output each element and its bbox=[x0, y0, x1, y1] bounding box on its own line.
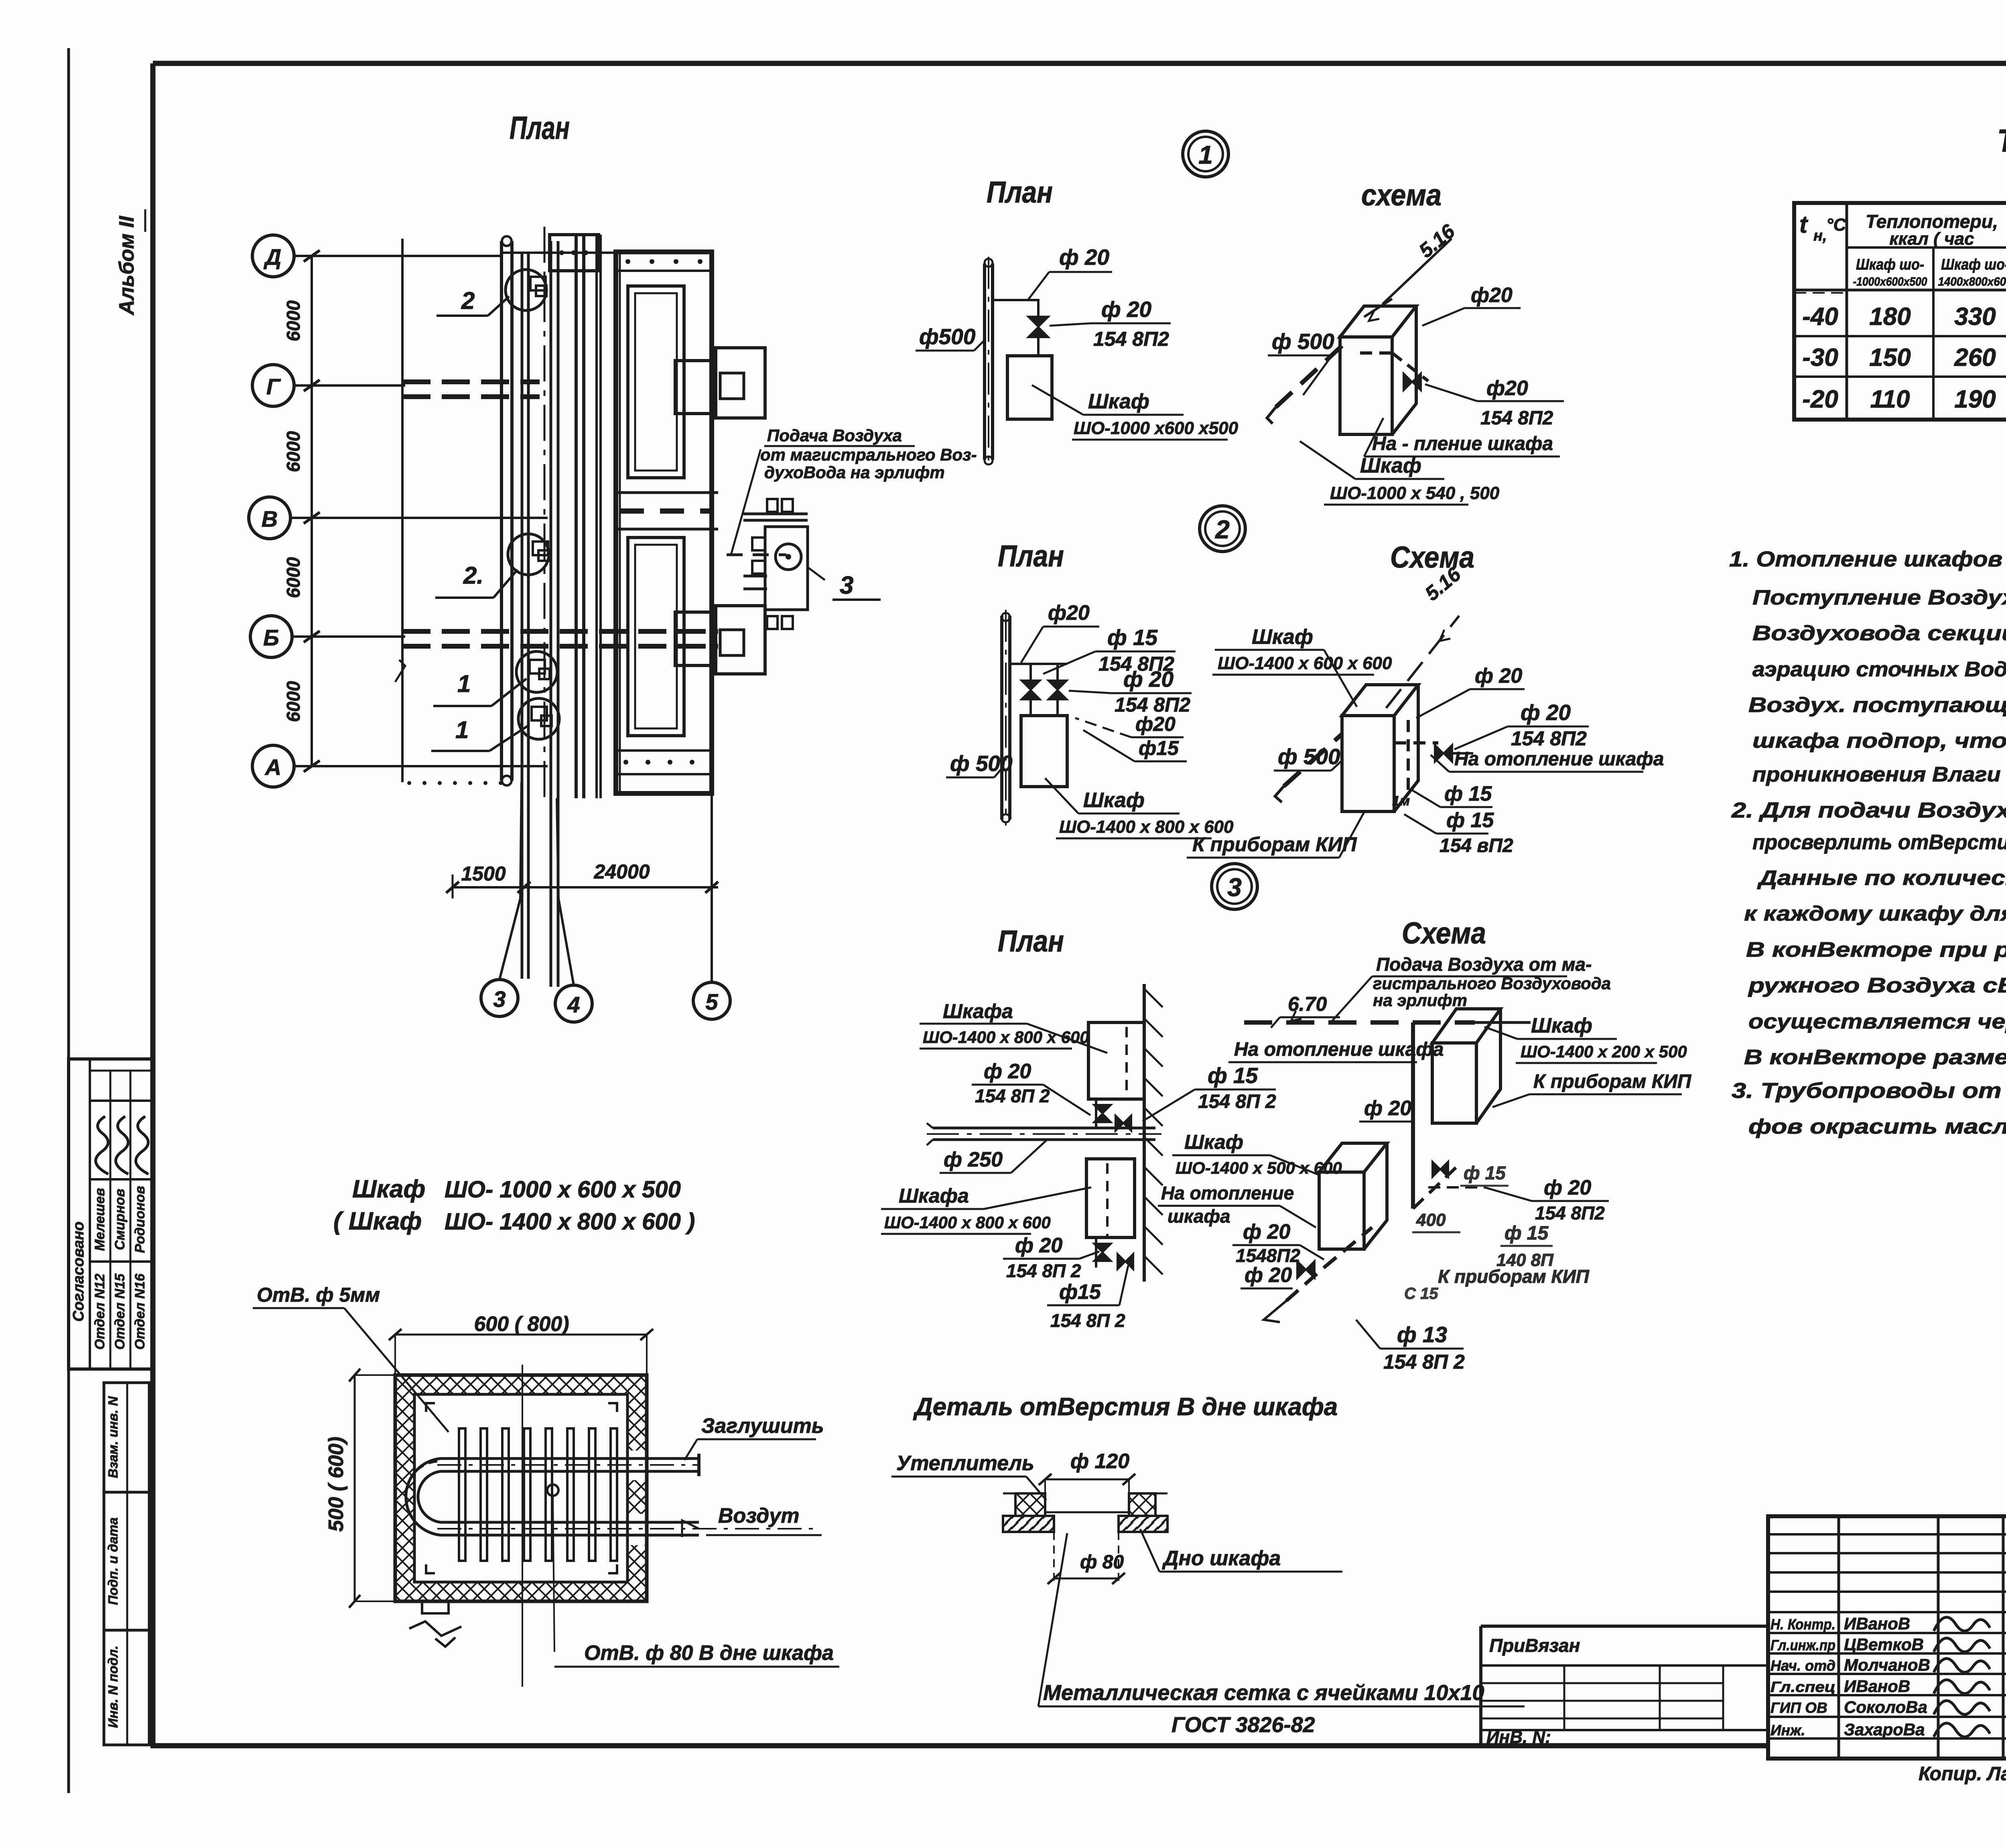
svg-text:ружного Воздуха сВедены В: ружного Воздуха сВедены В таблицу. Выход… bbox=[1747, 974, 2006, 997]
svg-text:1: 1 bbox=[455, 716, 469, 743]
node2 schema riser 5.16 bbox=[1386, 616, 1459, 708]
svg-text:ф 20: ф 20 bbox=[1101, 297, 1152, 322]
svg-text:154 8П 2: 154 8П 2 bbox=[1050, 1310, 1125, 1331]
svg-text:3. Трубопроводы от магистрал: 3. Трубопроводы от магистрального Воздух… bbox=[1732, 1079, 2006, 1103]
svg-text:ф 20: ф 20 bbox=[1059, 245, 1110, 270]
svg-text:ф20: ф20 bbox=[1471, 284, 1513, 307]
svg-text:ф 20: ф 20 bbox=[1243, 1220, 1290, 1243]
svg-text:Схема: Схема bbox=[1390, 540, 1474, 574]
svg-text:Воздуховода секции аэротен: Воздуховода секции аэротенка, подающего … bbox=[1752, 622, 2006, 645]
svg-text:ф 15: ф 15 bbox=[1107, 625, 1158, 650]
svg-text:-1000х600х500: -1000х600х500 bbox=[1853, 275, 1927, 288]
svg-text:24000: 24000 bbox=[593, 860, 650, 883]
svg-text:План: План bbox=[510, 110, 570, 146]
svg-text:180: 180 bbox=[1869, 303, 1911, 331]
svg-text:1: 1 bbox=[1198, 140, 1213, 169]
svg-text:ф 20: ф 20 bbox=[984, 1060, 1031, 1083]
dim 500 line bbox=[354, 1375, 356, 1601]
grid line Г duct dashes bbox=[402, 379, 540, 384]
grid line А bbox=[294, 765, 548, 767]
svg-text:А: А bbox=[264, 755, 281, 780]
svg-text:ф15: ф15 bbox=[1059, 1280, 1101, 1304]
node1 schema branch f20 bbox=[1464, 307, 1521, 309]
plan wall top edge line bbox=[501, 252, 616, 254]
svg-text:6.70: 6.70 bbox=[1288, 993, 1327, 1015]
svg-text:ф 250: ф 250 bbox=[944, 1148, 1003, 1171]
node2 cabinet box bbox=[1021, 716, 1067, 787]
svg-text:190: 190 bbox=[1954, 385, 1996, 413]
svg-text:ЗахароВа: ЗахароВа bbox=[1844, 1720, 1925, 1739]
svg-text:154 8П2: 154 8П2 bbox=[1511, 727, 1587, 750]
svg-text:5: 5 bbox=[705, 989, 718, 1014]
svg-text:ккал ( час: ккал ( час bbox=[1889, 229, 1974, 249]
table outer border bbox=[1794, 203, 2006, 420]
svg-text:Утеплитель: Утеплитель bbox=[896, 1452, 1034, 1475]
svg-text:Заглушить: Заглушить bbox=[701, 1414, 824, 1438]
cabinet corner marks bbox=[426, 1403, 435, 1412]
grid line Д bbox=[294, 255, 501, 257]
svg-text:ОтВ. ф 5мм: ОтВ. ф 5мм bbox=[257, 1284, 380, 1306]
airlift assembly bbox=[767, 499, 778, 512]
airlift feed dashed line bbox=[727, 554, 786, 556]
svg-text:ф20: ф20 bbox=[1048, 601, 1090, 625]
node3 plan upper cabinet bbox=[1088, 1022, 1144, 1099]
svg-text:Отдел N12: Отдел N12 bbox=[92, 1274, 108, 1350]
plan wall lines 1487 1497 bbox=[595, 235, 598, 798]
svg-text:К приборам КИП: К приборам КИП bbox=[1438, 1266, 1590, 1287]
node2 schema duct f500 diagonal bbox=[1284, 734, 1342, 786]
hole circle in cabinet floor bbox=[547, 1485, 558, 1496]
svg-text:2. Для подачи Воздуха В шкаф: 2. Для подачи Воздуха В шкаф, В конВекто… bbox=[1731, 798, 2006, 822]
svg-text:ШО-1000 х 540 , 500: ШО-1000 х 540 , 500 bbox=[1330, 483, 1500, 503]
node3 plan valves lower bbox=[1095, 1237, 1097, 1268]
vertical dimension line axes bbox=[311, 256, 313, 766]
svg-text:шкафа: шкафа bbox=[1167, 1206, 1230, 1227]
svg-text:500 ( 600): 500 ( 600) bbox=[325, 1436, 348, 1532]
svg-text:°С: °С bbox=[1826, 215, 1847, 235]
grid line Б bbox=[292, 635, 405, 638]
table subheader row line bbox=[1794, 289, 2006, 292]
plan tank block outer wall bbox=[616, 252, 712, 793]
svg-text:Родионов: Родионов bbox=[132, 1186, 148, 1253]
svg-text:На отопление шкафа: На отопление шкафа bbox=[1234, 1039, 1444, 1060]
svg-text:Согласовано: Согласовано bbox=[70, 1221, 87, 1322]
svg-text:фов окрасить масляной крас: фов окрасить масляной краской за 2 раза. bbox=[1748, 1115, 2006, 1138]
titleblock names rows empty top bbox=[1768, 1533, 2006, 1536]
node3 plan wall with hatching bbox=[1143, 984, 1146, 1282]
grid circle 4 bottom bbox=[555, 985, 592, 1022]
node1 schema pipe into box dashed bbox=[1360, 351, 1392, 355]
svg-text:В: В bbox=[262, 506, 278, 531]
svg-text:На отопление: На отопление bbox=[1161, 1183, 1294, 1203]
svg-text:Инж.: Инж. bbox=[1770, 1722, 1805, 1738]
hole top edge lines bbox=[1045, 1511, 1129, 1513]
svg-text:t: t bbox=[1799, 211, 1809, 238]
svg-text:2.: 2. bbox=[463, 562, 483, 589]
svg-text:Подп. и дата: Подп. и дата bbox=[106, 1517, 120, 1605]
svg-text:ф15: ф15 bbox=[1139, 737, 1179, 759]
node2 branch pipes bbox=[1010, 663, 1067, 665]
detail balloon circle low2 (1) bbox=[518, 698, 559, 739]
svg-text:ф 20: ф 20 bbox=[1245, 1264, 1292, 1287]
svg-text:154 8П2: 154 8П2 bbox=[1535, 1203, 1605, 1223]
table header group lines bbox=[1846, 203, 1848, 420]
svg-text:154 8П 2: 154 8П 2 bbox=[1006, 1260, 1081, 1281]
svg-text:ф 500: ф 500 bbox=[950, 751, 1013, 776]
svg-text:1м: 1м bbox=[1392, 793, 1410, 809]
svg-text:проникновения Влаги Внутрь.: проникновения Влаги Внутрь. bbox=[1752, 763, 2006, 786]
svg-text:Д: Д bbox=[264, 244, 281, 270]
svg-text:Поступление Воздуха осущест: Поступление Воздуха осуществляется от ма… bbox=[1752, 586, 2006, 609]
svg-text:-20: -20 bbox=[1802, 385, 1838, 413]
svg-text:В конВекторе при разных р: В конВекторе при разных расчетных темпер… bbox=[1746, 938, 2006, 962]
svg-text:260: 260 bbox=[1954, 344, 1996, 371]
titleblock names table columns bbox=[1837, 1516, 1840, 1759]
node3 schema main air line bbox=[1244, 1020, 1475, 1025]
convector upper pipe bbox=[441, 1457, 699, 1460]
svg-text:Б: Б bbox=[263, 625, 279, 650]
svg-text:План: План bbox=[998, 924, 1064, 958]
grid circle 5 bottom bbox=[693, 982, 730, 1019]
svg-text:6000: 6000 bbox=[283, 300, 304, 341]
plan right wall protrusion lower bbox=[675, 612, 712, 665]
svg-text:Г: Г bbox=[266, 374, 281, 399]
detail balloon circle mid (2) bbox=[508, 534, 549, 575]
plan tank 1 inner walls bbox=[628, 286, 684, 478]
node 3 balloon bbox=[1212, 864, 1257, 909]
svg-text:схема: схема bbox=[1361, 178, 1442, 212]
convector U-bend bbox=[406, 1459, 441, 1535]
svg-text:ф 15: ф 15 bbox=[1208, 1063, 1259, 1088]
svg-text:ф 500: ф 500 bbox=[1272, 329, 1334, 354]
svg-text:Гл.спец: Гл.спец bbox=[1770, 1679, 1835, 1695]
svg-text:Подача Воздуха: Подача Воздуха bbox=[767, 426, 902, 445]
table sub column lines bbox=[1932, 247, 1935, 420]
svg-text:ф 20: ф 20 bbox=[1364, 1097, 1411, 1120]
cabinet box outer wall bbox=[395, 1375, 647, 1601]
stamp cell Инв. N подл. bbox=[104, 1630, 149, 1745]
cabinet box inner wall bbox=[414, 1394, 627, 1582]
svg-text:Шкаф: Шкаф bbox=[1083, 789, 1145, 812]
convector lower pipe bbox=[441, 1521, 699, 1524]
svg-text:ф20: ф20 bbox=[1135, 713, 1176, 735]
plan wall lines 1373 1391 bbox=[550, 241, 552, 987]
svg-text:ГОСТ 3826-82: ГОСТ 3826-82 bbox=[1172, 1713, 1315, 1737]
svg-text:Копир. ЛаВрухина: Копир. ЛаВрухина bbox=[1919, 1763, 2006, 1785]
svg-text:Подача Воздуха от ма-: Подача Воздуха от ма- bbox=[1376, 954, 1592, 975]
svg-text:Инв. N подл.: Инв. N подл. bbox=[106, 1645, 120, 1728]
approval stamp dividers bbox=[89, 1059, 91, 1369]
node2 schema isometric box bbox=[1342, 685, 1418, 811]
svg-text:Отдел N15: Отдел N15 bbox=[112, 1273, 128, 1350]
section axis vertical line bbox=[522, 1365, 523, 1687]
svg-text:Гл.инж.пр: Гл.инж.пр bbox=[1770, 1637, 1835, 1653]
insulation block right crosshatch bbox=[1129, 1493, 1155, 1516]
svg-text:600 ( 800): 600 ( 800) bbox=[474, 1312, 569, 1336]
svg-text:ИВаноВ: ИВаноВ bbox=[1844, 1614, 1910, 1633]
svg-text:МолчаноВ: МолчаноВ bbox=[1844, 1655, 1930, 1674]
svg-text:ф 13: ф 13 bbox=[1397, 1322, 1447, 1347]
grid axis circle Г bbox=[252, 365, 294, 406]
svg-text:В конВекторе разместить ра: В конВекторе разместить раВномерно по дл… bbox=[1744, 1046, 2006, 1069]
grid axis circle В bbox=[249, 497, 290, 539]
grid axis circle А bbox=[252, 745, 294, 787]
floor plate right diagonal hatch bbox=[1119, 1516, 1167, 1532]
svg-text:ГИП ОВ: ГИП ОВ bbox=[1770, 1700, 1827, 1716]
svg-text:6000: 6000 bbox=[283, 681, 304, 722]
svg-text:Шкаф: Шкаф bbox=[352, 1175, 425, 1203]
svg-text:ф 15: ф 15 bbox=[1446, 809, 1494, 832]
node3 plan lower cabinet bbox=[1086, 1159, 1135, 1237]
svg-text:Шкаф: Шкаф bbox=[1184, 1131, 1243, 1153]
svg-text:С 15: С 15 bbox=[1404, 1285, 1438, 1302]
svg-text:ф 80: ф 80 bbox=[1080, 1552, 1124, 1573]
svg-text:ф 20: ф 20 bbox=[1123, 667, 1174, 692]
node2 schema internal pipe dashed bbox=[1407, 720, 1410, 796]
svg-text:ф 20: ф 20 bbox=[1475, 664, 1522, 688]
dim 600 line bbox=[395, 1334, 647, 1336]
svg-text:Смирнов: Смирнов bbox=[112, 1189, 128, 1250]
plan right box upper bbox=[716, 348, 765, 418]
svg-text:ф 500: ф 500 bbox=[1278, 744, 1340, 769]
svg-text:ШО- 1400 х 800 х 600 ): ШО- 1400 х 800 х 600 ) bbox=[445, 1209, 695, 1235]
node3 schema riser vertical bbox=[1411, 1022, 1415, 1209]
leader line to airlift bbox=[731, 449, 761, 555]
svg-text:На отопление шкафа: На отопление шкафа bbox=[1454, 749, 1664, 770]
svg-text:1: 1 bbox=[457, 670, 471, 697]
svg-text:154 8П 2: 154 8П 2 bbox=[975, 1085, 1050, 1106]
svg-text:1500: 1500 bbox=[461, 862, 506, 885]
svg-text:ИнВ. N:: ИнВ. N: bbox=[1486, 1727, 1551, 1747]
grid axis circle Д bbox=[252, 235, 294, 277]
approval stamp table box bbox=[69, 1059, 152, 1369]
svg-text:осуществляется через патр: осуществляется через патрубок В дне шкаф… bbox=[1748, 1010, 2006, 1033]
drawing frame border bbox=[153, 61, 2006, 66]
svg-text:ПриВязан: ПриВязан bbox=[1489, 1635, 1580, 1656]
node3 schema smudge pipes right bbox=[1413, 1163, 1460, 1209]
svg-text:Данные по количеству Воздуха: Данные по количеству Воздуха, который сл… bbox=[1757, 866, 2006, 890]
svg-text:2: 2 bbox=[461, 287, 475, 314]
node2 duct f500 vertical bbox=[1000, 616, 1003, 820]
node1 schema riser 5.16 bbox=[1383, 239, 1452, 304]
grid axis circle Б bbox=[250, 616, 292, 657]
svg-text:План: План bbox=[987, 175, 1053, 209]
plan bottom strip with dots bbox=[616, 749, 712, 752]
svg-text:шкафа подпор, что обеспечив: шкафа подпор, что обеспечивает защиту ар… bbox=[1752, 729, 2006, 753]
stamp cell Взам. инв. N bbox=[104, 1383, 149, 1492]
svg-text:План: План bbox=[998, 539, 1064, 573]
grid line Б duct dashes bbox=[402, 629, 718, 634]
node2 valve 2 bbox=[1048, 680, 1067, 700]
svg-text:4: 4 bbox=[567, 992, 580, 1017]
plan wall west double line bbox=[500, 241, 503, 781]
svg-text:ф500: ф500 bbox=[919, 324, 976, 349]
svg-text:Альбом II: Альбом II bbox=[115, 215, 138, 316]
grid circle 3 bottom bbox=[481, 980, 518, 1016]
grid line Г bbox=[294, 384, 405, 387]
svg-text:ф 20: ф 20 bbox=[1544, 1176, 1591, 1199]
svg-text:Шкафа: Шкафа bbox=[899, 1185, 969, 1207]
plan centre dash-dot line bbox=[544, 227, 546, 804]
svg-text:Взам. инв. N: Взам. инв. N bbox=[106, 1396, 120, 1478]
svg-text:Шкаф: Шкаф bbox=[1360, 454, 1421, 477]
plan tank 2 inner walls bbox=[628, 538, 684, 736]
titleblock names rows signed bbox=[1768, 1611, 2006, 1613]
svg-text:ф 15: ф 15 bbox=[1504, 1223, 1549, 1244]
svg-text:Шкаф: Шкаф bbox=[1252, 625, 1313, 649]
grid line В bbox=[290, 517, 548, 519]
svg-text:Н. Контр.: Н. Контр. bbox=[1770, 1616, 1835, 1633]
plan wall lines 1301 1317 bbox=[521, 252, 524, 979]
svg-text:150: 150 bbox=[1869, 344, 1911, 371]
svg-text:СоколоВа: СоколоВа bbox=[1844, 1698, 1927, 1716]
svg-text:Деталь отВерстия В дне шкафа: Деталь отВерстия В дне шкафа bbox=[913, 1393, 1338, 1421]
svg-text:ШО-1400 х 200 х 500: ШО-1400 х 200 х 500 bbox=[1521, 1042, 1687, 1061]
detail balloon circle top (2) bbox=[506, 270, 546, 310]
node 1 balloon bbox=[1183, 131, 1228, 177]
node3 schema upper cabinet isometric bbox=[1432, 1009, 1500, 1123]
plan middle channel bbox=[616, 491, 718, 494]
svg-text:154 вП2: 154 вП2 bbox=[1440, 835, 1513, 856]
svg-text:3: 3 bbox=[840, 572, 853, 599]
svg-text:Дно шкафа: Дно шкафа bbox=[1162, 1547, 1281, 1570]
svg-text:154 8П2: 154 8П2 bbox=[1480, 408, 1553, 429]
svg-text:2: 2 bbox=[1215, 515, 1230, 544]
node1 duct f500 vertical bbox=[983, 264, 986, 460]
svg-text:Мелешев: Мелешев bbox=[92, 1188, 108, 1251]
plan right wall protrusion upper bbox=[675, 361, 712, 414]
node3 plan valves upper bbox=[1095, 1099, 1097, 1128]
svg-text:н,: н, bbox=[1813, 227, 1827, 244]
svg-text:к каждому шкафу для его обог: к каждому шкафу для его обогрева, и коли… bbox=[1744, 902, 2006, 925]
svg-text:Схема: Схема bbox=[1402, 916, 1486, 950]
svg-text:Отдел N16: Отдел N16 bbox=[132, 1273, 148, 1350]
node3 schema valves diagonal bottom bbox=[1297, 1261, 1315, 1278]
svg-text:( Шкаф: ( Шкаф bbox=[333, 1207, 422, 1235]
node2 valve 1 bbox=[1021, 680, 1040, 700]
svg-text:Нач. отд: Нач. отд bbox=[1770, 1657, 1835, 1674]
svg-text:ф20: ф20 bbox=[1486, 377, 1528, 400]
svg-text:ОтВ. ф 80 В дне шкафа: ОтВ. ф 80 В дне шкафа bbox=[584, 1641, 834, 1665]
plan column axis line bbox=[401, 239, 404, 782]
svg-text:К приборам КИП: К приборам КИП bbox=[1533, 1071, 1692, 1092]
sheet left margin line bbox=[67, 48, 70, 1793]
svg-text:154 8П2: 154 8П2 bbox=[1093, 328, 1169, 350]
detail balloon circle low1 (1) bbox=[516, 651, 557, 692]
svg-text:ШО-1400 х 600 х 600: ШО-1400 х 600 х 600 bbox=[1218, 653, 1392, 673]
plan top box with dots bbox=[550, 235, 599, 271]
svg-text:Шкаф: Шкаф bbox=[1088, 390, 1149, 413]
svg-text:ЦВеткоВ: ЦВеткоВ bbox=[1844, 1635, 1924, 1654]
floor plate left diagonal hatch bbox=[1003, 1516, 1054, 1532]
node1 cabinet box bbox=[1007, 356, 1052, 419]
svg-text:ф 15: ф 15 bbox=[1444, 782, 1492, 805]
svg-text:Шкаф: Шкаф bbox=[1531, 1014, 1592, 1037]
svg-text:Шкаф шо-: Шкаф шо- bbox=[1856, 256, 1924, 273]
svg-text:-30: -30 bbox=[1802, 344, 1838, 371]
svg-text:3: 3 bbox=[1227, 873, 1242, 902]
cabinet door hinge marks bbox=[422, 1601, 449, 1613]
svg-text:400: 400 bbox=[1416, 1210, 1446, 1230]
svg-text:6000: 6000 bbox=[283, 431, 304, 472]
svg-text:154 8П 2: 154 8П 2 bbox=[1383, 1351, 1465, 1373]
svg-text:аэрацию сточных Вод.: аэрацию сточных Вод. bbox=[1752, 658, 2006, 681]
convector fins bbox=[459, 1428, 465, 1561]
plan right box lower bbox=[716, 606, 765, 674]
svg-text:Воздух. поступающий для отоп: Воздух. поступающий для отопления, созда… bbox=[1748, 694, 2006, 717]
svg-text:на эрлифт: на эрлифт bbox=[1373, 991, 1467, 1010]
svg-text:На - пление шкафа: На - пление шкафа bbox=[1372, 433, 1553, 454]
svg-text:ИВаноВ: ИВаноВ bbox=[1844, 1677, 1910, 1696]
insulation block left crosshatch bbox=[1015, 1493, 1045, 1516]
node 2 balloon bbox=[1200, 506, 1245, 552]
svg-text:1548П2: 1548П2 bbox=[1236, 1245, 1300, 1266]
table data row lines bbox=[1794, 335, 2006, 337]
titleblock left attachment table bbox=[1481, 1625, 1768, 1628]
node1 schema duct f500 diagonal dashed bbox=[1276, 340, 1348, 407]
plan wall band 1436 1455 bbox=[575, 235, 578, 798]
stamp cell Подп. и дата bbox=[104, 1492, 149, 1630]
node2 schema valve bbox=[1435, 744, 1452, 762]
svg-text:Металлическая сетка с ячейкам: Металлическая сетка с ячейками 10х10 bbox=[1043, 1681, 1484, 1705]
svg-text:ШО- 1000 х 600 х 500: ШО- 1000 х 600 х 500 bbox=[445, 1177, 681, 1203]
svg-text:духоВода на эрлифт: духоВода на эрлифт bbox=[764, 463, 945, 482]
plan bottom dots row under A bbox=[407, 781, 411, 785]
svg-text:154 8П 2: 154 8П 2 bbox=[1198, 1091, 1276, 1112]
pipe end cap Заглушить bbox=[697, 1454, 700, 1476]
svg-text:Таблица: Таблица bbox=[1997, 123, 2006, 158]
svg-text:ШО-1000 х600 х500: ШО-1000 х600 х500 bbox=[1074, 418, 1239, 438]
svg-text:1400х800х600: 1400х800х600 bbox=[1938, 275, 2006, 288]
bottom dimension line bbox=[453, 886, 718, 889]
svg-text:1. Отопление шкафов КИП- В: 1. Отопление шкафов КИП- Воздушное ( t В… bbox=[1729, 547, 2006, 571]
mesh leader line bbox=[1038, 1533, 1067, 1706]
plan tank top strip dots bbox=[616, 270, 712, 272]
table header row line bbox=[1847, 246, 2006, 249]
node1 valve bbox=[1028, 316, 1049, 337]
svg-text:Шкаф шо-: Шкаф шо- bbox=[1941, 256, 2006, 273]
node1 branch pipe f20 bbox=[993, 300, 1038, 316]
svg-text:-40: -40 bbox=[1802, 303, 1838, 331]
node1 schema isometric box bbox=[1340, 306, 1416, 434]
svg-text:ШО-1400 х 800 х 600: ШО-1400 х 800 х 600 bbox=[884, 1213, 1051, 1232]
svg-text:ф 20: ф 20 bbox=[1521, 700, 1571, 725]
node3 plan pipe f250 bbox=[933, 1127, 1155, 1130]
svg-text:К приборам КИП: К приборам КИП bbox=[1192, 833, 1357, 856]
svg-text:просверлить отВерстия ф 5мм.: просверлить отВерстия ф 5мм. bbox=[1752, 831, 2006, 854]
svg-text:3: 3 bbox=[493, 986, 506, 1012]
svg-text:6000: 6000 bbox=[283, 557, 304, 598]
node3 schema lower cabinet isometric bbox=[1319, 1143, 1387, 1249]
node1 schema valve bbox=[1403, 373, 1421, 391]
titleblock names table outer bbox=[1768, 1516, 2006, 1759]
svg-text:110: 110 bbox=[1870, 385, 1910, 413]
svg-text:ф 120: ф 120 bbox=[1070, 1450, 1129, 1473]
svg-text:Шкафа: Шкафа bbox=[943, 1000, 1013, 1022]
svg-text:330: 330 bbox=[1954, 303, 1996, 331]
svg-text:от магистрального Воз-: от магистрального Воз- bbox=[760, 445, 977, 464]
svg-text:ф 15: ф 15 bbox=[1464, 1162, 1506, 1183]
svg-text:Воздут: Воздут bbox=[718, 1504, 799, 1527]
svg-text:ф 20: ф 20 bbox=[1015, 1234, 1062, 1257]
break mark on column line bbox=[395, 660, 405, 682]
